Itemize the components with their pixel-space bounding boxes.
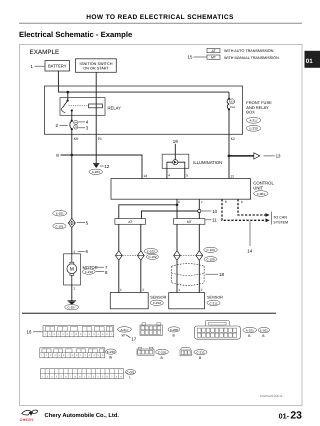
sensor pin labels right [178, 288, 202, 292]
svg-text:C-207: C-207 [68, 306, 77, 310]
dashed pair link AT [122, 255, 137, 257]
node K2 branch [228, 155, 231, 158]
svg-text:K8: K8 [74, 137, 78, 141]
callout 16 [27, 330, 43, 335]
arrow to other page [229, 153, 260, 159]
svg-text:9: 9 [241, 200, 243, 204]
inline connector diamond 5 [68, 218, 75, 227]
callout 3 [78, 126, 88, 131]
svg-text:8: 8 [225, 200, 227, 204]
callout 8 [96, 270, 108, 275]
svg-text:19: 19 [173, 139, 178, 144]
example frame [20, 45, 303, 406]
connector oval C-101 [53, 223, 66, 229]
illumination lamp box [162, 154, 189, 168]
svg-text:CHERY: CHERY [20, 418, 35, 422]
svg-text:RELAY: RELAY [108, 106, 122, 111]
svg-text:C-001: C-001 [257, 192, 266, 196]
svg-text:11: 11 [212, 218, 217, 223]
connector oval C-207 ground [65, 305, 79, 310]
svg-text:01-: 01- [279, 411, 290, 420]
svg-text:16: 16 [27, 330, 32, 335]
wire K8 drop [71, 129, 73, 155]
wire lamp pin 4 [166, 168, 168, 178]
svg-text:E-501: E-501 [260, 329, 268, 333]
svg-text:C-212: C-212 [153, 301, 162, 305]
callout 11 [206, 218, 218, 223]
svg-text:1: 1 [120, 288, 122, 292]
footer logo [20, 410, 38, 422]
battery box [45, 61, 70, 71]
svg-text:K2: K2 [231, 137, 235, 141]
connector view C-001 strip [41, 369, 124, 379]
svg-text:EXAMPLE: EXAMPLE [30, 49, 60, 56]
svg-text:A-217: A-217 [249, 119, 257, 123]
connector view C-210 [137, 347, 154, 355]
wire ignition feed [95, 72, 97, 104]
wire AT sensor 2 [140, 224, 142, 250]
wire node10 MT drop [198, 213, 200, 251]
shielded pair (callout 18) [172, 264, 205, 286]
svg-text:WITH MANUAL TRANSMISSION: WITH MANUAL TRANSMISSION [224, 56, 279, 60]
connector oval A-217 view [118, 327, 132, 332]
svg-text:14: 14 [247, 249, 252, 254]
sensor pin labels left [120, 288, 144, 292]
svg-text:Electrical Schematic - Example: Electrical Schematic - Example [19, 30, 133, 39]
svg-text:1: 1 [73, 287, 75, 291]
wire AT sensor 2 lower [140, 260, 142, 292]
wire net 9 horizontal [61, 155, 143, 179]
svg-text:23: 23 [290, 410, 302, 421]
svg-text:15: 15 [188, 54, 193, 59]
sensor box left [110, 293, 148, 309]
callout 5 [77, 220, 89, 225]
svg-text:AT: AT [211, 49, 215, 53]
diamond connector MT2 [196, 251, 203, 261]
connector oval C-210 motor [82, 269, 95, 274]
separator rule [22, 312, 276, 314]
svg-text:10: 10 [212, 209, 217, 214]
connector oval C-100 [204, 257, 217, 262]
CAN bracket [270, 212, 272, 225]
svg-text:7: 7 [201, 200, 203, 204]
section tab 01 [305, 51, 320, 68]
svg-text:6: 6 [178, 200, 180, 204]
callout 7 [97, 265, 108, 270]
svg-text:A-101: A-101 [246, 329, 254, 333]
callout 15 [188, 54, 207, 59]
connector oval C-208 view [168, 327, 180, 332]
wire motor ground [71, 285, 73, 301]
svg-text:C-001: C-001 [126, 370, 135, 374]
svg-text:BOX: BOX [246, 110, 255, 115]
wire lamp feed [174, 144, 176, 160]
svg-text:TO CAN: TO CAN [273, 216, 287, 220]
wire left branch upper [71, 155, 73, 218]
callout 10 [202, 209, 218, 214]
AT option box [115, 219, 146, 225]
svg-text:A-203: A-203 [92, 170, 100, 174]
svg-text:13: 13 [143, 174, 147, 178]
svg-text:15A: 15A [230, 105, 235, 109]
svg-text:C-212: C-212 [196, 351, 205, 355]
callout 14 leader [249, 221, 251, 246]
front fuse and relay box label [246, 100, 272, 115]
control unit box [111, 179, 251, 200]
node 10 splice [198, 209, 201, 212]
fuse symbol 3 [74, 125, 78, 129]
svg-text:A-217: A-217 [120, 328, 128, 332]
motor M [64, 254, 81, 285]
callout 1 [31, 64, 46, 69]
diamond connector MT1 [174, 251, 181, 261]
CAN system label [273, 216, 288, 225]
fuse symbol 4 [74, 120, 78, 124]
connector oval A-203 [89, 169, 103, 174]
wire pin 6 MT drop [176, 205, 178, 251]
connector oval C-102 [146, 254, 158, 259]
diamond connector AT2 [137, 251, 144, 261]
legend AT option box [207, 48, 220, 53]
svg-text:HOW TO READ ELECTRICAL SCHEMAT: HOW TO READ ELECTRICAL SCHEMATICS [86, 14, 234, 21]
footer page number [279, 410, 303, 421]
svg-text:C-211: C-211 [210, 301, 218, 305]
connector 12 arrow [93, 163, 99, 168]
svg-text:C-102: C-102 [148, 255, 157, 259]
CAN dashed wire pin 9 [238, 199, 266, 215]
wire K2 drop [228, 109, 230, 178]
svg-text:P1: P1 [98, 137, 102, 141]
svg-text:C-208: C-208 [170, 328, 179, 332]
svg-text:E-230: E-230 [249, 127, 257, 131]
fuse 63 15A [227, 92, 230, 110]
node pin6 junction [176, 204, 179, 207]
connector oval E-230 view [106, 349, 117, 354]
svg-text:13: 13 [276, 154, 281, 159]
wire left branch lower [71, 228, 73, 254]
svg-text:UNIT: UNIT [253, 185, 263, 190]
MT option box [174, 219, 205, 225]
svg-text:01: 01 [306, 58, 313, 65]
svg-text:C-103: C-103 [206, 248, 215, 252]
svg-text:M: M [70, 267, 74, 273]
front fuse and relay box frame [45, 86, 243, 134]
CAN arrow lower [266, 218, 270, 222]
connector oval view b1 [243, 327, 257, 332]
connector oval C-212 [150, 300, 163, 305]
svg-text:1: 1 [178, 288, 180, 292]
svg-text:12: 12 [231, 174, 235, 178]
svg-text:L: L [129, 375, 131, 379]
wire pin 7 [198, 199, 200, 209]
CAN dashed wire pin 8 [222, 199, 266, 220]
connector view A-217 strip [43, 326, 114, 337]
callout 12 [100, 164, 110, 169]
connector oval C-210 view [156, 349, 169, 354]
svg-text:18: 18 [219, 272, 224, 277]
svg-text:beema0100011: beema0100011 [260, 394, 283, 398]
wire battery feed [58, 71, 229, 92]
svg-text:C-101: C-101 [55, 224, 64, 228]
svg-text:SENSOR: SENSOR [207, 296, 223, 300]
connector oval C-212 view [194, 350, 207, 355]
sensor box right [169, 293, 205, 309]
svg-text:17: 17 [131, 336, 136, 341]
relay K1 [60, 98, 105, 116]
svg-text:ILLUMINATION: ILLUMINATION [193, 160, 222, 165]
callout 4 [78, 120, 88, 125]
connector view C-001 large [194, 321, 240, 340]
svg-text:E-102: E-102 [147, 250, 155, 254]
node 9 junction [71, 154, 74, 157]
callout 13 [263, 154, 281, 159]
callout 2 [56, 123, 68, 128]
callout 17 [126, 335, 137, 342]
svg-text:C-210: C-210 [85, 270, 94, 274]
CAN arrow upper [266, 213, 270, 217]
wire MT sensor 1 lower [176, 260, 178, 292]
svg-text:2: 2 [201, 288, 203, 292]
svg-text:C-100: C-100 [206, 258, 215, 262]
svg-text:AT: AT [128, 220, 132, 224]
connector oval E-230 (label) [246, 125, 261, 131]
connector oval C-103 [204, 247, 218, 252]
wire AT sensor 1 [118, 224, 120, 250]
connector oval E-101 [53, 210, 67, 216]
wire relay coil feed [67, 92, 69, 100]
wire lamp pin 5 [184, 168, 186, 178]
svg-text:E-230: E-230 [107, 350, 115, 354]
wire AT sensor 1 lower [118, 260, 120, 292]
svg-text:E-101: E-101 [56, 212, 64, 216]
svg-text:2: 2 [142, 288, 144, 292]
svg-text:IGNITION SWITCH: IGNITION SWITCH [80, 62, 113, 66]
wire pin 6 [119, 199, 177, 218]
svg-text:SYSTEM: SYSTEM [273, 220, 288, 224]
callout 6 [78, 249, 89, 254]
ignition switch box [76, 59, 117, 73]
connector oval E-102 [144, 249, 157, 254]
svg-text:MT: MT [187, 220, 192, 224]
svg-text:BATTERY: BATTERY [48, 64, 67, 69]
diamond connector AT1 [115, 251, 122, 261]
svg-text:WITH AUTO TRANSMISSION: WITH AUTO TRANSMISSION [224, 49, 274, 53]
connector oval C-211 [207, 300, 220, 305]
connector oval view b2 [258, 327, 269, 332]
fusible link (callout 2) [70, 120, 73, 131]
wire MT sensor 2 lower [198, 260, 200, 292]
fuse 63 symbol [230, 99, 235, 104]
svg-text:4: 4 [168, 174, 170, 178]
connector view C-212 small [180, 348, 191, 356]
svg-text:SENSOR: SENSOR [150, 296, 166, 300]
header rule [19, 22, 302, 24]
connector oval C-001 [254, 191, 268, 197]
wire node10 AT drop [142, 211, 198, 219]
callout 18 [206, 272, 225, 277]
connector view E-230 strip [40, 348, 105, 358]
connector oval A-217 (label) [246, 117, 261, 123]
svg-text:5: 5 [186, 174, 188, 178]
node battery junction [67, 91, 70, 94]
svg-text:ON OR START: ON OR START [83, 67, 109, 71]
svg-text:C-210: C-210 [158, 350, 167, 354]
control unit label [253, 181, 274, 191]
connector view C-208 [140, 323, 163, 336]
wire relay output [95, 104, 97, 163]
dashed pair link MT [180, 255, 196, 257]
svg-text:12: 12 [104, 164, 109, 169]
connector oval C-001 view [125, 370, 135, 375]
wire relay switch output [71, 111, 73, 121]
svg-text:MT: MT [211, 56, 216, 60]
legend MT option box [207, 55, 220, 60]
ground [68, 301, 77, 305]
svg-text:Chery Automobile Co., Ltd.: Chery Automobile Co., Ltd. [45, 412, 120, 419]
